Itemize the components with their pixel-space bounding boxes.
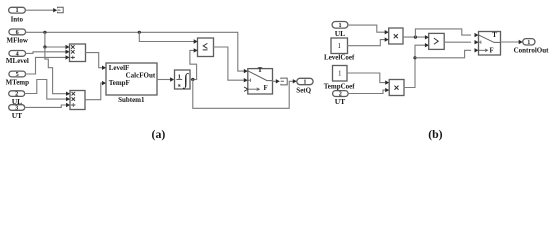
- svg-text:Into: Into: [11, 16, 24, 24]
- relational GT (>): [425, 33, 444, 49]
- svg-text:LevelCoef: LevelCoef: [324, 54, 355, 62]
- inport MTemp (5): [6, 71, 30, 87]
- arrowhead into SetQ: [293, 79, 297, 83]
- svg-text:ControlOut: ControlOut: [514, 46, 550, 54]
- wire TempCoef to M2 in1: [347, 73, 385, 83]
- wire UL to P2 in2: [25, 80, 66, 100]
- junction MFlow/LE branch: [138, 31, 141, 34]
- svg-text:TempCoef: TempCoef: [324, 82, 356, 90]
- wire M2 branch to switch F: [415, 50, 471, 58]
- wire UL to M1 in1: [348, 25, 385, 32]
- svg-text:MFlow: MFlow: [7, 36, 29, 44]
- terminator T2: [281, 78, 288, 85]
- constant LevelCoef: [324, 38, 355, 62]
- svg-text:F: F: [490, 47, 494, 54]
- wire M2 out up to GT in2: [404, 45, 425, 87]
- constant TempCoef: [324, 66, 356, 91]
- svg-text:T: T: [492, 32, 497, 39]
- relational LE (<=): [194, 38, 214, 57]
- svg-text:F: F: [264, 85, 268, 92]
- switch SW2: [475, 32, 501, 56]
- inport UT (2): [333, 91, 349, 106]
- wire UT to M2 in2: [348, 90, 385, 93]
- svg-text:MTemp: MTemp: [6, 79, 30, 87]
- inport MLevel (4): [6, 50, 29, 65]
- subsystem Subtem1: [102, 63, 157, 104]
- junction MFlow/product1 branch: [43, 31, 46, 34]
- outport SetQ (1): [296, 78, 313, 94]
- product M1: [385, 28, 403, 44]
- svg-text:TempF: TempF: [109, 79, 130, 87]
- wire Subtem1 out to integrator: [157, 79, 170, 81]
- wire MFlow drop to product P1 in1: [45, 32, 66, 47]
- svg-text:UT: UT: [12, 111, 22, 120]
- product P1: [66, 44, 86, 62]
- svg-text:SetQ: SetQ: [296, 87, 311, 95]
- svg-text:UT: UT: [335, 97, 345, 106]
- terminator T1: [57, 7, 63, 13]
- wire MFlow staircase to product P2 in1: [45, 47, 66, 94]
- wire feedback integrator to SetQ: [193, 80, 293, 109]
- wire UT to P2 in3: [25, 105, 66, 107]
- svg-text:UL: UL: [335, 29, 345, 38]
- svg-text:s: s: [178, 82, 181, 89]
- inport UT (3): [9, 105, 25, 120]
- wire P2 out to Subtem1 TempF: [85, 83, 102, 100]
- wire integrator out stub: [190, 79, 197, 81]
- wire Into to terminator: [25, 9, 53, 11]
- svg-text:1: 1: [303, 79, 306, 86]
- svg-text:6: 6: [16, 29, 19, 36]
- inport UL (2): [9, 91, 25, 106]
- wire switch out to ControlOut: [501, 41, 519, 43]
- junction integrator out: [191, 78, 194, 81]
- wire MTemp to P1 in3: [26, 57, 66, 74]
- wire switch out to terminator T2: [273, 80, 276, 82]
- wire GT out to switch control: [444, 41, 470, 43]
- svg-text:1: 1: [338, 70, 342, 78]
- switch SW1: [244, 67, 273, 94]
- svg-text:CalcFOut: CalcFOut: [126, 71, 156, 79]
- wire integrator out up to LE in2: [190, 50, 197, 79]
- junction M1 out: [414, 36, 417, 39]
- svg-text:MLevel: MLevel: [6, 57, 29, 65]
- inport Into (1): [9, 7, 26, 23]
- wire P1 out to Subtem1 LevelF: [86, 53, 102, 68]
- svg-text:(a): (a): [152, 127, 166, 141]
- svg-text:Subtem1: Subtem1: [118, 96, 145, 104]
- wire MFlow main run: [26, 32, 244, 71]
- svg-text:1: 1: [15, 7, 18, 14]
- product P2: [66, 91, 85, 110]
- wire LE out to switch control: [214, 47, 244, 80]
- svg-text:(b): (b): [428, 127, 442, 141]
- inport MFlow (6): [7, 29, 29, 44]
- outport ControlOut (1): [514, 39, 550, 55]
- svg-text:T: T: [258, 67, 263, 74]
- wire MLevel to P1 in2: [26, 52, 66, 54]
- wire M1 branch over GT to switch T: [415, 29, 470, 37]
- svg-text:5: 5: [16, 71, 19, 78]
- junction on P1 in1 drop: [43, 45, 46, 48]
- product M2: [385, 80, 404, 96]
- svg-text:1: 1: [527, 40, 530, 46]
- svg-text:1: 1: [337, 42, 341, 50]
- wire MFlow branch down to LE in1: [139, 32, 193, 41]
- arrowhead into terminator: [53, 8, 57, 12]
- wire M1 out to GT in1: [403, 36, 425, 38]
- junction M2 riser: [413, 56, 416, 59]
- inport UL (1): [332, 22, 348, 38]
- wire LevelCoef to M1 in2: [348, 40, 385, 46]
- integrator U1 (1/s): [175, 70, 191, 90]
